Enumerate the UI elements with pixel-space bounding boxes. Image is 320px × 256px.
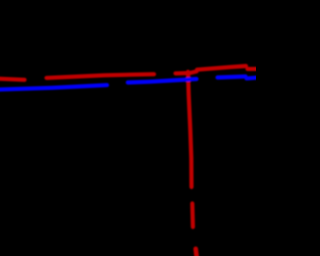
blue dashed line, dash 2 — [128, 79, 197, 83]
red vertical dashed line, dash 1 — [188, 72, 192, 187]
blue dashed line, dash 1 — [0, 85, 107, 90]
red horizontal dashed line, dash 2 — [47, 74, 155, 78]
red vertical dashed line, dash 3 — [196, 249, 197, 256]
red horizontal dashed line, dash 1 — [0, 79, 25, 80]
red horizontal dashed line, dash 4 — [197, 66, 246, 70]
blue dashed line, dash 3 — [218, 76, 246, 77]
blue dashed line, dash 4 — [247, 76, 259, 81]
red vertical dashed line, dash 2 — [190, 204, 195, 228]
red horizontal dashed line, dash 3 — [176, 71, 197, 73]
red horizontal dashed line, dash 5 — [248, 67, 259, 71]
